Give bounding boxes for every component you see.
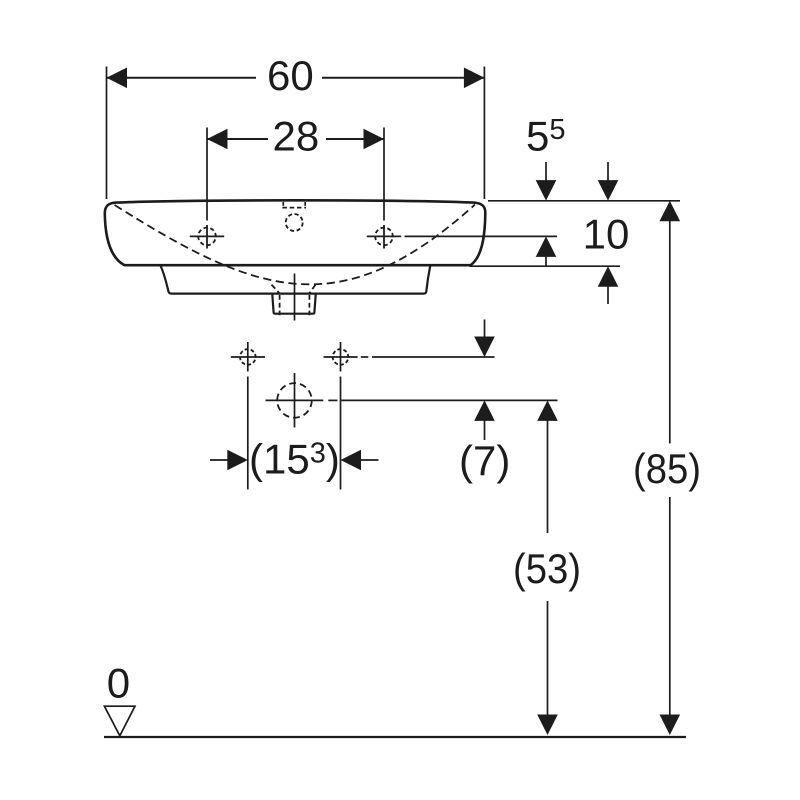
svg-text:(85): (85) xyxy=(633,445,701,492)
fixing hole left: dashed circle xyxy=(238,347,258,367)
fixing hole right crosshair xyxy=(324,356,358,358)
dash after drain crosshair xyxy=(328,399,337,401)
washbasin pedestal (lower body) xyxy=(161,266,431,294)
drain outlet centerline xyxy=(294,274,296,321)
svg-text:28: 28 xyxy=(273,113,320,160)
dimension 15.3: left arrow xyxy=(210,459,229,461)
dimension 10: bottom arrow xyxy=(598,266,619,287)
floor line xyxy=(104,736,686,738)
drain crosshair xyxy=(266,399,324,401)
overflow hole (dashed circle) xyxy=(286,214,303,231)
svg-text:(153): (153) xyxy=(249,436,340,483)
washbasin upper body outline xyxy=(105,200,486,265)
svg-text:0: 0 xyxy=(107,660,130,707)
dimension 5.5: bottom arrow xyxy=(536,236,557,257)
fixing hole left crosshair xyxy=(231,356,265,358)
datum triangle xyxy=(104,706,135,736)
svg-text:(53): (53) xyxy=(513,545,581,592)
dimension 15.3: right arrow xyxy=(341,450,362,471)
dimension 5.5: top arrow xyxy=(545,162,547,181)
bowl funnel dashed line right xyxy=(309,285,316,294)
dimension 85: lower line and arrow xyxy=(669,497,671,715)
svg-text:10: 10 xyxy=(583,210,630,257)
tap hole left crosshair xyxy=(190,235,224,237)
dimension 28: dimension line xyxy=(207,138,268,140)
dimension 53: lower line and arrow xyxy=(547,601,549,715)
dimension 53: top arrow xyxy=(537,400,558,421)
overflow slot dashed bottom xyxy=(282,207,306,209)
reference line: rim top level xyxy=(488,200,680,202)
svg-text:60: 60 xyxy=(267,52,314,99)
dimension 7: top arrow xyxy=(484,320,486,338)
dimension 60: dimension line xyxy=(107,77,257,79)
dimension 28: extension lines xyxy=(206,128,208,221)
dimension 60: arrowheads xyxy=(107,68,128,89)
drain hole: dashed circle xyxy=(277,383,312,418)
tap hole right crosshair xyxy=(367,235,401,237)
dimension 10: top arrow xyxy=(607,162,609,181)
svg-text:(7): (7) xyxy=(459,437,510,484)
reference line: fixing hole level xyxy=(372,356,495,358)
reference line: drain level xyxy=(341,399,557,401)
dimension 15.3: extension lines below fixing holes xyxy=(247,377,249,490)
tap hole left: dashed circle xyxy=(196,225,219,248)
overflow slot ticks xyxy=(282,202,284,206)
dimension 85: top arrow xyxy=(660,201,681,222)
bowl inner contour (dashed) xyxy=(115,205,475,285)
bowl funnel dashed line left xyxy=(272,285,281,294)
reference line: tap hole level xyxy=(405,235,558,237)
dimension 60: extension lines xyxy=(106,67,108,200)
dash after right fixing hole xyxy=(361,356,369,358)
drain outlet hidden lines (dashed) xyxy=(279,295,281,315)
tap hole right: dashed circle xyxy=(373,225,396,248)
fixing hole right: dashed circle xyxy=(331,347,351,367)
dimension 7: bottom arrow xyxy=(474,400,495,421)
reference line: rim bottom level xyxy=(470,265,621,267)
dimension 28: arrowheads xyxy=(207,129,228,150)
drain outlet box xyxy=(272,295,315,314)
